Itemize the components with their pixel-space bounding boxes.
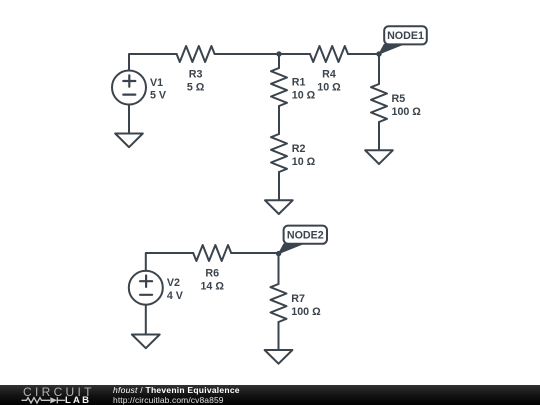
wire R7 to ground	[278, 322, 280, 350]
resistor R7	[271, 284, 287, 322]
wire top-left corner V2 to R6	[146, 253, 193, 271]
NODE1 flag box	[384, 26, 427, 44]
wire V1 to ground	[128, 105, 130, 134]
wire NODE1 junction down to R5	[378, 54, 380, 84]
wire top-left corner V1 to R3	[129, 54, 177, 71]
resistor R6	[193, 245, 231, 261]
svg-text:100 Ω: 100 Ω	[291, 306, 321, 318]
wire R1 to R2	[278, 106, 280, 134]
NODE2 flag pointer	[279, 244, 303, 254]
footer bar	[0, 385, 540, 405]
ground below R5	[365, 150, 393, 164]
voltage source V1	[112, 71, 146, 105]
resistor R3	[177, 46, 215, 62]
svg-text:R3: R3	[189, 69, 203, 81]
svg-text:100 Ω: 100 Ω	[392, 106, 422, 118]
svg-text:R5: R5	[392, 93, 406, 105]
ground below R7	[265, 350, 293, 364]
NODE2 junction dot	[276, 251, 281, 256]
svg-text:5 V: 5 V	[150, 90, 167, 102]
wire V2 to ground	[145, 305, 147, 335]
footer url text	[113, 395, 224, 405]
svg-text:R4: R4	[322, 69, 336, 81]
svg-text:5 Ω: 5 Ω	[187, 82, 205, 94]
ground below V2	[132, 335, 160, 349]
svg-text:R2: R2	[292, 143, 306, 155]
svg-text:4 V: 4 V	[167, 290, 184, 302]
svg-text:NODE1: NODE1	[387, 30, 424, 42]
wire node A to R4	[279, 53, 310, 55]
svg-text:NODE2: NODE2	[287, 230, 324, 242]
ground below R2	[265, 200, 293, 214]
svg-text:V1: V1	[150, 77, 163, 89]
node A junction dot	[276, 51, 281, 56]
resistor R2	[271, 134, 287, 172]
NODE2 flag box	[284, 226, 327, 244]
svg-text:14 Ω: 14 Ω	[200, 281, 224, 293]
wire R5 to ground	[378, 122, 380, 150]
ground below V1	[115, 134, 143, 148]
resistor R1	[271, 68, 287, 106]
wire R4 to NODE1 junction	[348, 53, 379, 55]
wire NODE2 junction down to R7	[278, 253, 280, 284]
footer title text	[113, 385, 240, 395]
wire R2 to ground	[278, 172, 280, 200]
svg-text:10 Ω: 10 Ω	[292, 156, 316, 168]
svg-text:R1: R1	[292, 77, 306, 89]
svg-text:R6: R6	[205, 268, 219, 280]
svg-text:V2: V2	[167, 277, 180, 289]
svg-text:10 Ω: 10 Ω	[317, 82, 341, 94]
resistor R5	[371, 84, 387, 122]
resistor R4	[310, 46, 348, 62]
wire R6 to NODE2 junction	[231, 252, 278, 254]
svg-text:R7: R7	[291, 293, 305, 305]
wire node A down to R1	[278, 54, 280, 68]
logo resistor-diode mark and LAB	[0, 385, 110, 405]
voltage source V2	[129, 271, 163, 305]
wire R3 to node A	[215, 53, 279, 55]
CircuitLab logo CIRCUIT	[23, 385, 95, 399]
NODE1 flag pointer	[379, 44, 403, 54]
NODE1 junction dot	[376, 51, 381, 56]
svg-text:10 Ω: 10 Ω	[292, 90, 316, 102]
